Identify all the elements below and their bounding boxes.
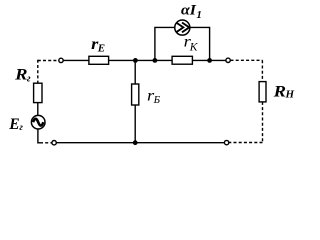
svg-text:Н: Н [285, 89, 295, 101]
svg-text:αI: αI [181, 3, 197, 19]
svg-text:1: 1 [196, 9, 202, 21]
svg-text:Б: Б [153, 94, 161, 106]
svg-text:R: R [14, 67, 28, 84]
svg-text:E: E [97, 43, 105, 55]
svg-text:E: E [8, 116, 19, 133]
svg-text:г: г [19, 123, 23, 133]
svg-text:R: R [272, 83, 286, 100]
svg-text:К: К [189, 41, 199, 53]
svg-text:г: г [27, 73, 31, 84]
